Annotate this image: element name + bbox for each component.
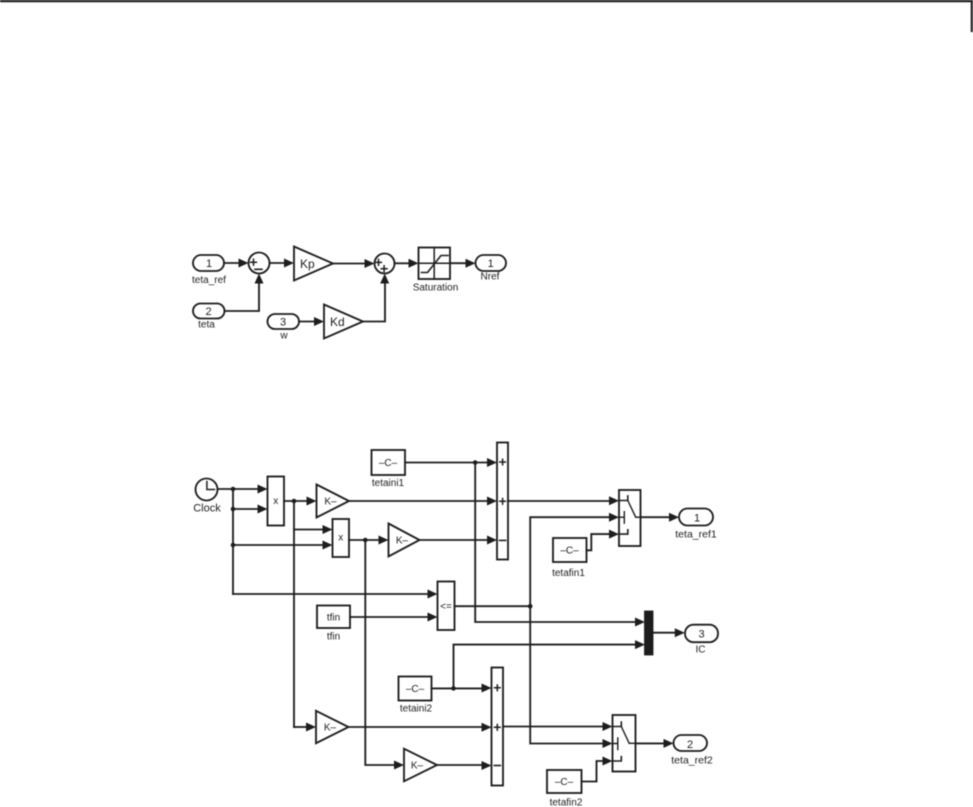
constant tetaini1 [372, 450, 406, 489]
node A junction on clock output [231, 487, 236, 492]
wire product X2 to gain K2 [349, 536, 389, 545]
wire switch SW1 to outport teta_ref1 [641, 513, 680, 522]
svg-text:tfin: tfin [327, 632, 340, 643]
svg-text:tfin: tfin [327, 613, 340, 624]
node E junction on tetaini1 output [473, 460, 478, 465]
node F junction on product X2 output [363, 538, 368, 543]
wire Kp to sum S2 [333, 259, 375, 268]
wire control to switch SW2 input 2 [530, 606, 612, 748]
wire control to switch SW1 input 2 [530, 513, 619, 607]
wire gain K3 to sum SB2 input 2 [349, 723, 492, 732]
sum SB1 [497, 443, 508, 560]
wire node H branch to mux input 2 [454, 640, 646, 688]
inport 3 w [268, 314, 300, 342]
outport 3 IC [685, 625, 718, 656]
wire port3 to gain Kd [299, 317, 324, 326]
switch SW2 [613, 715, 636, 772]
product X2 [333, 519, 350, 557]
switch SW1 [619, 490, 641, 546]
wire sum SB1 to switch SW1 input 1 [508, 496, 619, 505]
wire node D branch to gain K3 [294, 723, 316, 732]
wire gain K4 to sum SB2 input 3 [437, 761, 492, 770]
svg-text:–C–: –C– [379, 458, 398, 469]
svg-text:–C–: –C– [555, 777, 574, 788]
inport 1 teta_ref [192, 255, 226, 286]
node D junction on product X1 output [292, 499, 297, 504]
svg-text:w: w [279, 331, 288, 342]
wire node F vertical branch to gain K4 [365, 540, 404, 770]
gain Kd [324, 305, 363, 339]
svg-text:3: 3 [280, 317, 286, 329]
wire left trunk vertical [232, 489, 234, 594]
wire tetafin1 to switch SW1 input 3 [587, 530, 620, 551]
wire node D branch to product X2 input 1 [294, 525, 333, 534]
sum S2 [375, 254, 395, 274]
wire product X1 to gain K1 [284, 497, 317, 506]
wire Kd to sum S2 [363, 274, 389, 322]
svg-text:2: 2 [205, 306, 211, 318]
wire port2 to sum S1 [225, 274, 264, 312]
wire trunk to product X2 input 2 [233, 541, 333, 550]
svg-text:teta: teta [198, 320, 215, 331]
constant tetafin1 [552, 538, 586, 579]
clock block [193, 479, 221, 515]
svg-text:1: 1 [206, 258, 212, 270]
svg-text:x: x [273, 496, 278, 507]
wire port1 to sum S1 [224, 259, 249, 268]
svg-text:tetaini1: tetaini1 [372, 478, 405, 489]
outport 1 teta_ref1 [675, 509, 717, 541]
constant tetafin2 [547, 770, 583, 807]
svg-text:teta_ref1: teta_ref1 [675, 529, 717, 541]
svg-text:x: x [338, 533, 343, 544]
svg-text:1: 1 [694, 513, 700, 525]
svg-text:K–: K– [324, 496, 337, 507]
wire relational output control line [455, 605, 531, 607]
outport 1 Nref [476, 255, 507, 283]
wire tfin to relational operator input 2 [350, 613, 438, 622]
inport 2 teta [193, 304, 225, 331]
product X1 [268, 477, 285, 526]
wire sum S1 to gain Kp [270, 259, 295, 268]
svg-text:K–: K– [324, 722, 337, 733]
svg-text:teta_ref: teta_ref [192, 275, 226, 286]
wire switch SW2 to outport teta_ref2 [636, 739, 674, 748]
svg-text:K–: K– [411, 760, 424, 771]
svg-text:Kp: Kp [300, 257, 315, 271]
svg-text:2: 2 [687, 739, 693, 751]
node C junction to product X2 input 2 [231, 543, 236, 548]
svg-text:Clock: Clock [193, 503, 221, 515]
saturation block [413, 248, 459, 294]
wire trunk to product X1 input 2 [233, 505, 268, 514]
wire tetafin2 to switch SW2 input 3 [582, 757, 613, 782]
svg-text:Kd: Kd [330, 315, 345, 329]
mux IC [645, 612, 653, 655]
wire node D vertical branch [293, 501, 295, 727]
svg-text:tetafin1: tetafin1 [552, 568, 585, 579]
constant tetaini2 [399, 677, 433, 715]
node H junction on tetaini2 output [451, 686, 456, 691]
svg-text:tetaini2: tetaini2 [400, 704, 433, 715]
sum S1 [249, 253, 270, 274]
svg-text:Nref: Nref [481, 272, 500, 283]
gain K4 [404, 749, 437, 782]
node B junction to product X1 input 2 [231, 507, 236, 512]
svg-text:teta_ref2: teta_ref2 [671, 755, 713, 767]
svg-text:K–: K– [396, 536, 409, 547]
constant tfin [317, 606, 350, 643]
wire sum S2 to saturation [395, 259, 419, 268]
wire trunk to relational operator input 1 [233, 590, 438, 599]
svg-text:tetafin2: tetafin2 [550, 798, 583, 807]
outport 2 teta_ref2 [671, 735, 713, 767]
page top border [0, 0, 973, 2]
node G junction on control line [528, 604, 533, 609]
gain K2 [389, 524, 420, 557]
svg-text:3: 3 [698, 629, 704, 641]
gain K3 [316, 711, 349, 743]
wire clock to product X1 input 1 [218, 485, 268, 494]
svg-text:–C–: –C– [560, 546, 579, 557]
svg-text:–C–: –C– [406, 684, 425, 695]
svg-text:IC: IC [696, 645, 706, 656]
wire tetaini2 to sum SB2 input 1 [432, 684, 492, 693]
wire gain K1 to sum SB1 input 2 [349, 497, 497, 506]
wire mux to outport IC [653, 628, 685, 637]
wire sum SB2 to switch SW2 input 1 [503, 722, 613, 731]
sum SB2 [492, 668, 504, 786]
wire saturation to outport [450, 259, 476, 268]
svg-text:Saturation: Saturation [413, 283, 459, 294]
wire tetaini1 to sum SB1 input 1 [405, 458, 497, 467]
wire gain K2 to sum SB1 input 3 [420, 536, 498, 545]
gain Kp [294, 247, 333, 281]
gain K1 [317, 485, 350, 518]
wire node E branch to mux input 1 [475, 463, 645, 627]
relational operator tlt [438, 582, 455, 631]
svg-text:<=: <= [440, 602, 452, 613]
svg-text:1: 1 [488, 258, 494, 270]
page right edge mark [971, 0, 973, 31]
